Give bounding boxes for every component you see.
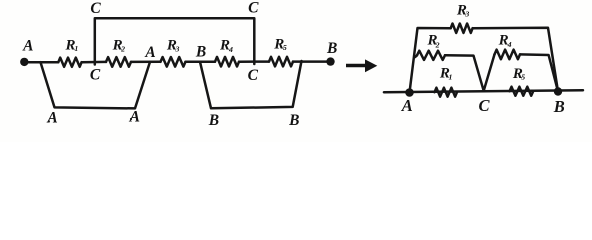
svg-text:A: A [129, 109, 140, 126]
svg-text:2: 2 [435, 41, 440, 50]
svg-text:A: A [401, 96, 413, 115]
svg-text:1: 1 [74, 44, 78, 53]
svg-text:C: C [90, 67, 101, 84]
svg-text:4: 4 [228, 45, 233, 54]
svg-text:B: B [288, 112, 299, 129]
svg-text:B: B [195, 44, 206, 61]
svg-text:5: 5 [521, 73, 525, 82]
svg-text:1: 1 [449, 72, 453, 81]
svg-text:B: B [208, 112, 219, 129]
svg-text:C: C [248, 0, 259, 16]
svg-text:B: B [553, 97, 565, 116]
svg-text:C: C [478, 96, 490, 115]
svg-text:3: 3 [464, 9, 469, 18]
svg-text:A: A [144, 44, 155, 61]
svg-text:3: 3 [174, 45, 179, 54]
svg-text:2: 2 [120, 44, 125, 53]
svg-text:5: 5 [283, 43, 287, 52]
svg-text:A: A [22, 38, 33, 55]
svg-text:C: C [90, 0, 101, 17]
svg-text:4: 4 [507, 40, 512, 49]
svg-text:A: A [46, 110, 57, 127]
svg-text:C: C [248, 67, 259, 84]
svg-text:B: B [326, 40, 337, 57]
